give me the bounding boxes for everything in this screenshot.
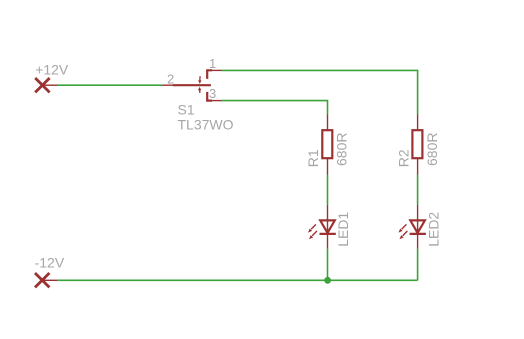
wire LED2 to bottom net: [417, 249, 419, 281]
junction: [324, 277, 331, 284]
svg-text:LED2: LED2: [426, 212, 442, 247]
svg-text:1: 1: [209, 56, 216, 71]
svg-text:-12V: -12V: [35, 254, 65, 270]
svg-text:3: 3: [209, 86, 216, 101]
svg-text:R2: R2: [395, 149, 411, 167]
resistor R1: [322, 115, 332, 175]
svg-text:2: 2: [167, 72, 174, 87]
svg-text:R1: R1: [305, 149, 321, 167]
wire LED1 to bottom net: [327, 249, 329, 281]
wire R1 to LED1: [327, 175, 329, 205]
svg-text:680R: 680R: [334, 133, 350, 166]
wire bottom net -12V: [57, 279, 418, 281]
svg-text:S1: S1: [178, 102, 195, 118]
wire S1 pin 3 to R1 column: [222, 101, 327, 115]
supply symbol +12V: [35, 78, 57, 92]
resistor R2: [412, 115, 422, 175]
LED D1: [308, 205, 336, 249]
supply symbol -12V: [35, 273, 57, 287]
LED D2: [399, 205, 426, 249]
wire +12V to S1 pin 2: [57, 84, 162, 86]
switch S1: [162, 70, 222, 100]
wire S1 pin 1 to R2 column: [222, 70, 418, 114]
svg-text:680R: 680R: [424, 133, 440, 166]
wire R2 to LED2: [417, 175, 419, 205]
svg-text:LED1: LED1: [335, 212, 351, 247]
svg-text:+12V: +12V: [35, 61, 69, 77]
svg-text:TL37WO: TL37WO: [178, 116, 234, 132]
